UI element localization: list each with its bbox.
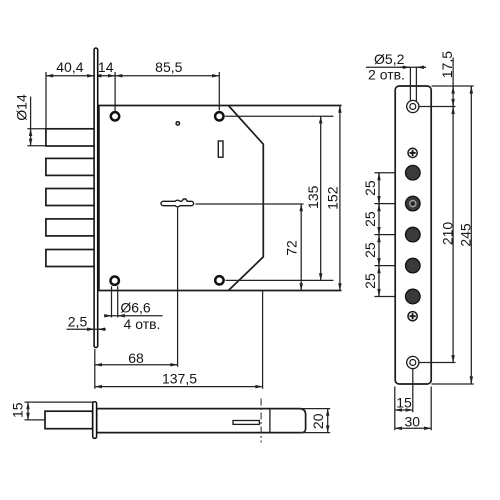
svg-text:25: 25 [362, 242, 378, 258]
svg-text:Ø6,6: Ø6,6 [120, 299, 151, 315]
svg-text:25: 25 [362, 180, 378, 196]
svg-text:68: 68 [128, 350, 144, 366]
svg-text:210: 210 [440, 222, 456, 246]
svg-text:15: 15 [9, 402, 25, 418]
svg-text:135: 135 [305, 185, 321, 209]
svg-text:25: 25 [362, 273, 378, 289]
svg-text:245: 245 [458, 223, 474, 247]
svg-text:14: 14 [98, 59, 114, 75]
svg-text:15: 15 [396, 394, 412, 410]
svg-text:17,5: 17,5 [439, 51, 455, 78]
svg-text:152: 152 [324, 186, 340, 210]
svg-text:2,5: 2,5 [68, 313, 88, 329]
svg-text:2 отв.: 2 отв. [368, 67, 405, 83]
svg-text:72: 72 [284, 240, 300, 256]
svg-text:137,5: 137,5 [162, 370, 197, 386]
svg-text:Ø14: Ø14 [14, 94, 30, 121]
svg-text:85,5: 85,5 [155, 59, 182, 75]
svg-text:4 отв.: 4 отв. [124, 316, 161, 332]
svg-text:25: 25 [362, 211, 378, 227]
svg-text:40,4: 40,4 [56, 59, 83, 75]
svg-text:Ø5,2: Ø5,2 [374, 51, 405, 67]
svg-text:20: 20 [310, 413, 326, 429]
svg-text:30: 30 [405, 413, 421, 429]
